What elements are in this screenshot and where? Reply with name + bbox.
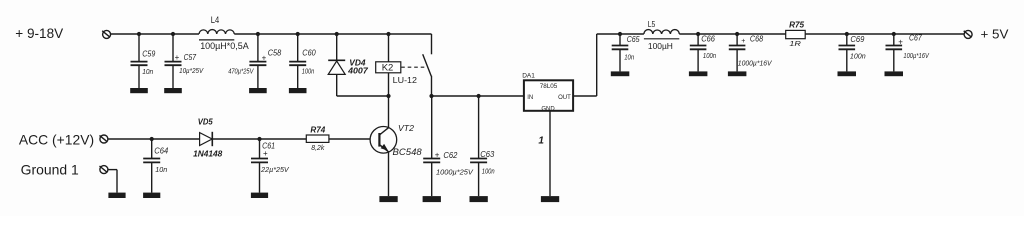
svg-text:1R: 1R	[789, 39, 801, 48]
svg-text:+: +	[435, 151, 440, 160]
svg-text:100n: 100n	[482, 169, 495, 176]
svg-text:C62: C62	[443, 150, 457, 160]
svg-text:+ 9-18V: + 9-18V	[15, 26, 63, 41]
svg-text:1000µ*25V: 1000µ*25V	[436, 170, 474, 177]
svg-text:100n: 100n	[703, 53, 716, 60]
svg-text:Ground 1: Ground 1	[21, 162, 79, 177]
svg-text:100µH: 100µH	[648, 41, 673, 51]
svg-text:C68: C68	[750, 34, 764, 43]
svg-text:DA1: DA1	[522, 73, 535, 80]
svg-text:L4: L4	[211, 15, 219, 25]
svg-text:+: +	[263, 149, 268, 158]
svg-text:100n: 100n	[850, 53, 866, 60]
svg-text:10n: 10n	[624, 55, 634, 62]
svg-text:4007: 4007	[347, 66, 369, 76]
svg-text:+: +	[741, 38, 745, 45]
svg-text:470µ*25V: 470µ*25V	[228, 69, 254, 76]
svg-text:C67: C67	[909, 34, 922, 43]
svg-text:+: +	[898, 38, 903, 47]
svg-text:GND: GND	[541, 106, 555, 112]
svg-text:10n: 10n	[142, 69, 153, 76]
svg-text:C65: C65	[627, 35, 640, 44]
svg-text:BC548: BC548	[393, 147, 422, 157]
svg-text:8,2k: 8,2k	[311, 145, 324, 152]
svg-text:78L05: 78L05	[540, 83, 558, 90]
svg-text:C58: C58	[268, 48, 282, 57]
svg-text:1N4148: 1N4148	[193, 150, 223, 159]
svg-text:R74: R74	[310, 126, 325, 135]
svg-text:1000µ*16V: 1000µ*16V	[738, 61, 773, 68]
svg-text:L5: L5	[648, 20, 656, 29]
svg-text:C69: C69	[850, 35, 865, 44]
svg-text:C64: C64	[154, 146, 168, 155]
svg-text:C63: C63	[480, 149, 494, 159]
svg-text:22µ*25V: 22µ*25V	[260, 167, 290, 174]
svg-text:+: +	[175, 53, 180, 62]
svg-text:+: +	[262, 53, 267, 62]
svg-text:+ 5V: + 5V	[981, 27, 1009, 42]
svg-text:100µ*16V: 100µ*16V	[903, 53, 929, 60]
svg-text:100n: 100n	[302, 69, 315, 76]
svg-text:C66: C66	[701, 34, 715, 43]
svg-text:VT2: VT2	[398, 123, 414, 133]
svg-text:VD5: VD5	[198, 118, 214, 127]
svg-text:C60: C60	[302, 48, 316, 57]
svg-text:100µH*0,5A: 100µH*0,5A	[200, 41, 249, 51]
svg-text:1: 1	[538, 136, 544, 147]
svg-text:10µ*25V: 10µ*25V	[179, 68, 204, 75]
svg-text:10n: 10n	[155, 167, 167, 174]
svg-text:ACC (+12V): ACC (+12V)	[19, 133, 94, 148]
svg-text:OUT: OUT	[558, 95, 571, 101]
svg-text:R75: R75	[789, 21, 805, 30]
svg-text:LU-12: LU-12	[393, 75, 418, 85]
svg-text:C57: C57	[184, 53, 197, 62]
svg-text:K2: K2	[382, 63, 394, 74]
svg-text:IN: IN	[527, 95, 533, 101]
svg-text:C59: C59	[142, 50, 155, 59]
